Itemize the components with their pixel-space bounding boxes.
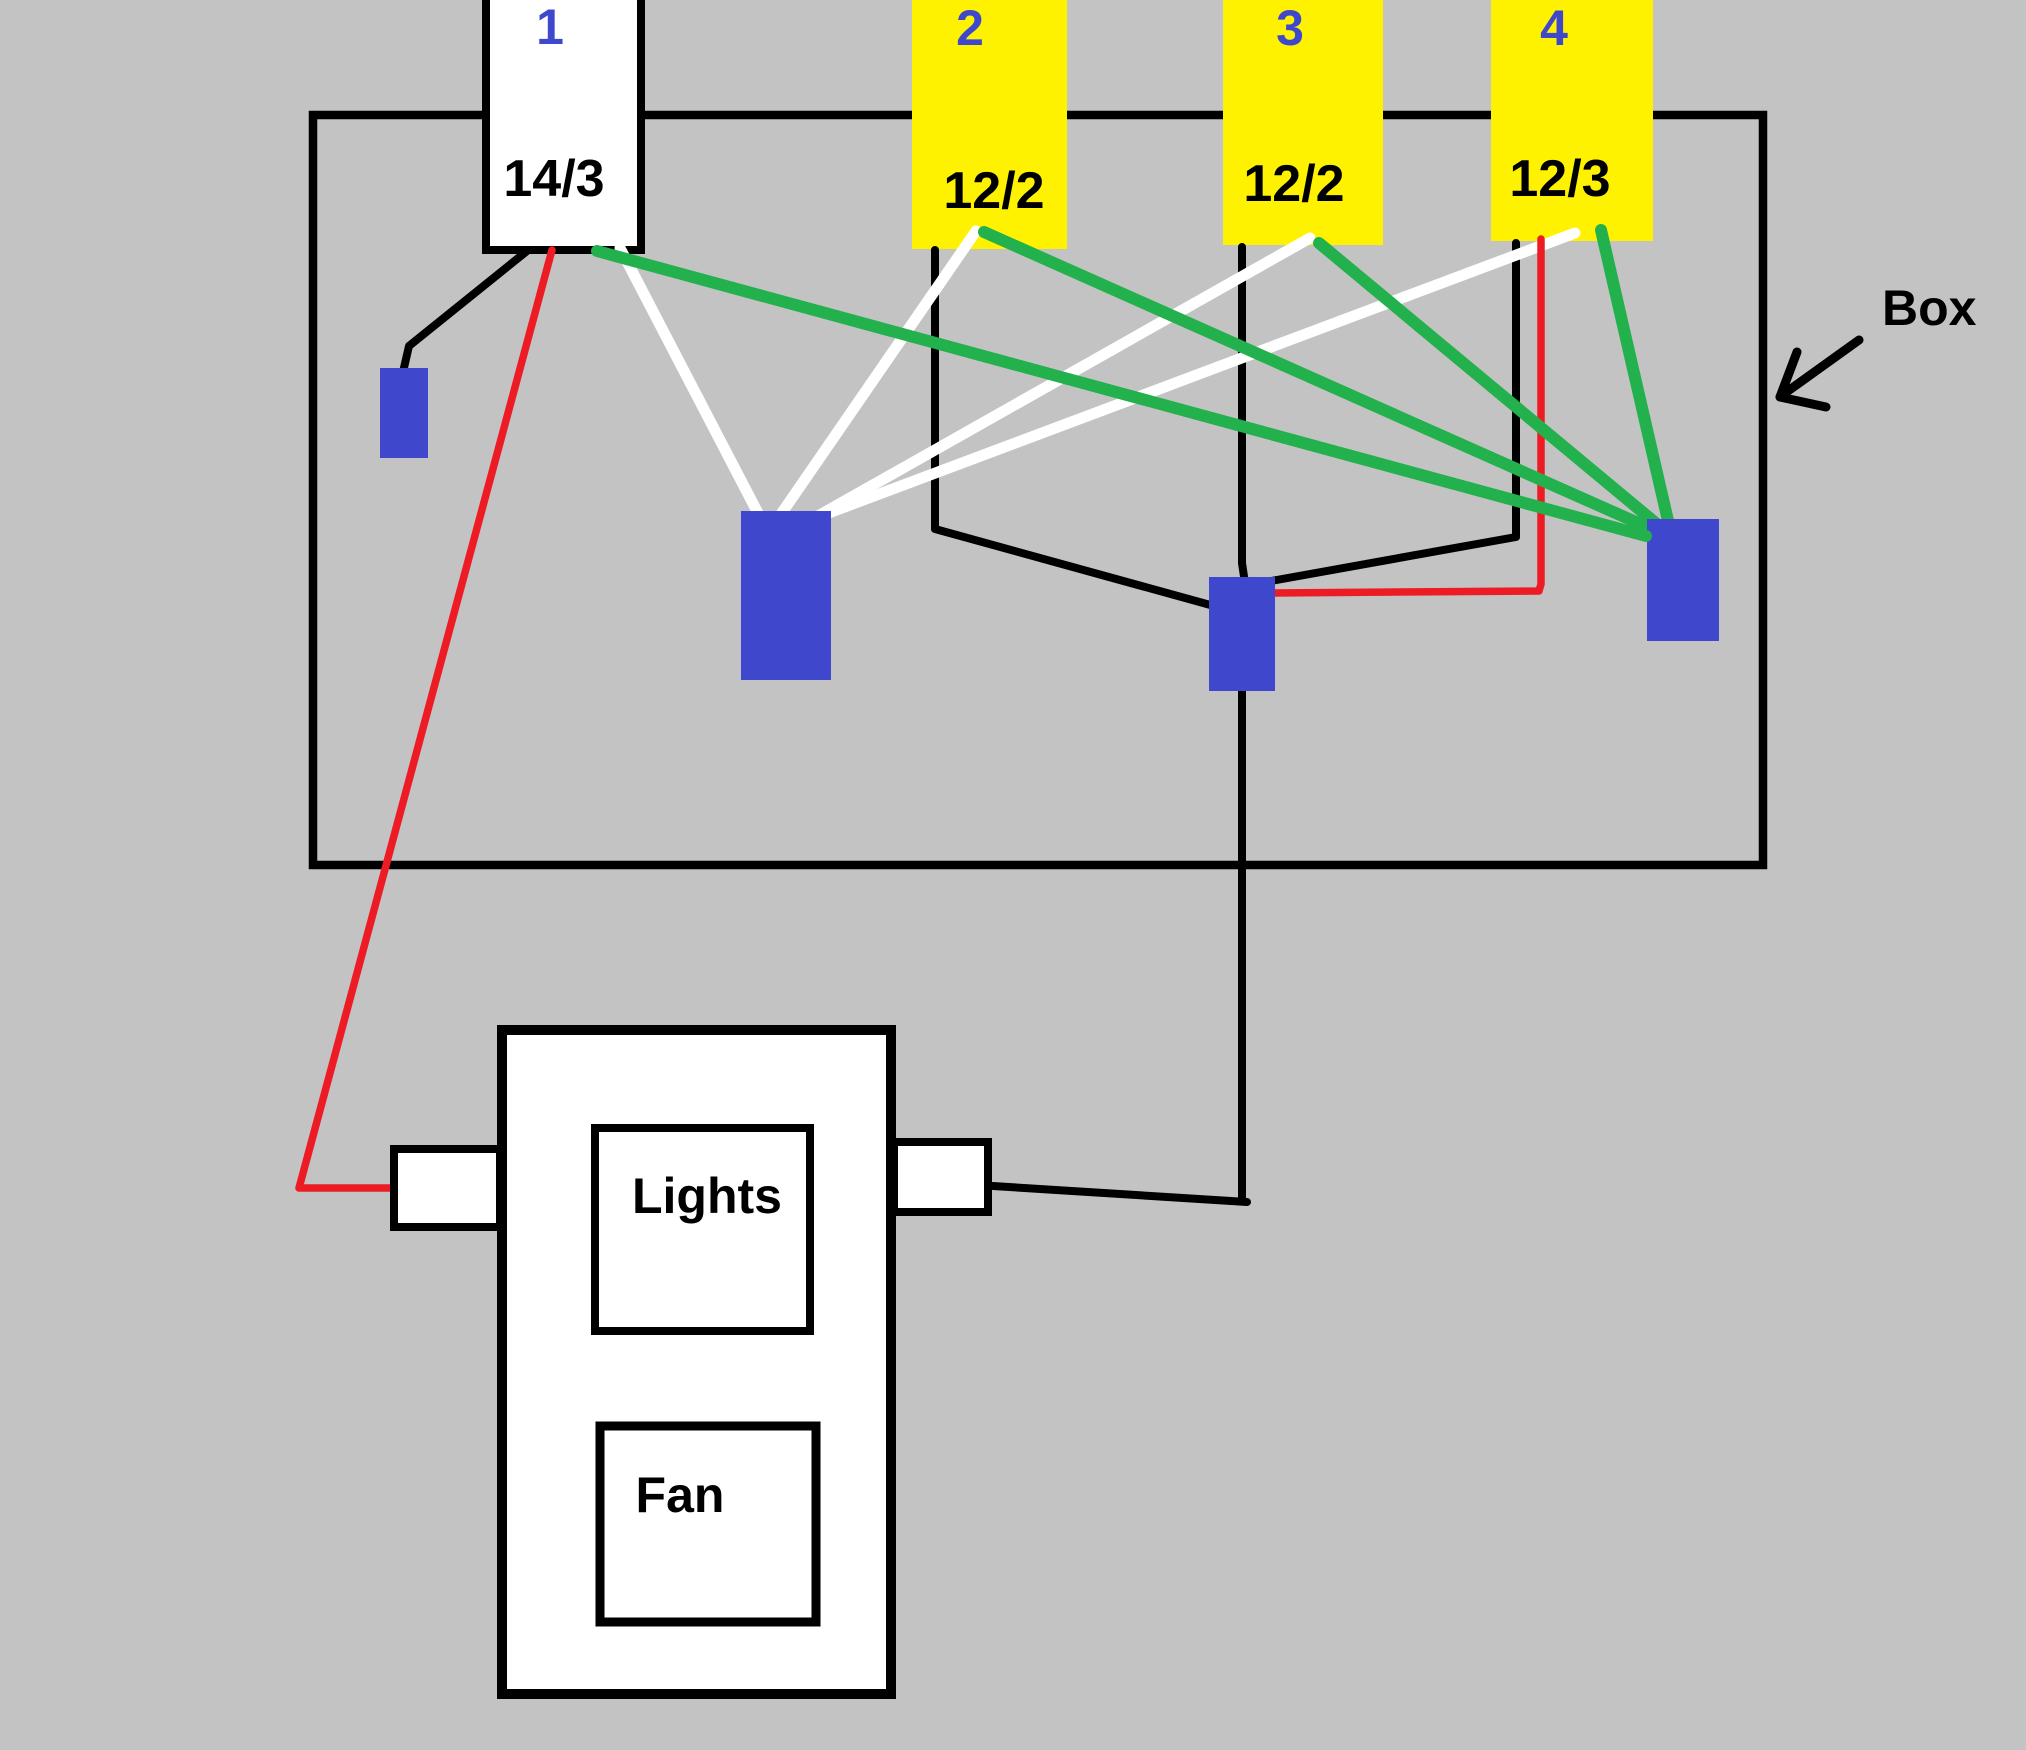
cable 4 sheath (yellow, 12/3) bbox=[1491, 0, 1653, 241]
black wire: B3 down out of box bbox=[1238, 685, 1246, 1201]
wire nut B1 (blue) bbox=[380, 368, 428, 458]
green wire: cable 2 to B4 bbox=[984, 232, 1656, 531]
black wire: cable 4 to B3 bbox=[1271, 243, 1516, 581]
white wire: cable 2 to B2 bbox=[779, 231, 976, 517]
white wire: cable 1 to B2 bbox=[620, 248, 760, 517]
svg-text:2: 2 bbox=[956, 0, 984, 56]
junction box outline bbox=[313, 115, 1763, 865]
red wire: cable 1 down to fixture left tab bbox=[299, 250, 552, 1188]
fixture body bbox=[502, 1030, 891, 1694]
svg-text:1: 1 bbox=[536, 0, 564, 55]
svg-text:Box: Box bbox=[1882, 280, 1977, 336]
wire nut B3 (blue, hots) bbox=[1209, 577, 1275, 691]
white wire: cable 4 to B2 bbox=[810, 233, 1575, 520]
black wire: fixture right tab to vertical bbox=[993, 1186, 1247, 1202]
svg-text:4: 4 bbox=[1540, 0, 1568, 56]
green wire: cable 1 to B4 bbox=[597, 251, 1646, 536]
fixture left tab bbox=[394, 1149, 500, 1227]
wire nut B2 (blue, neutrals) bbox=[741, 511, 831, 680]
arrow pointing to box edge: shaft bbox=[1781, 340, 1859, 396]
white wire: cable 3 to B2 bbox=[818, 238, 1310, 516]
svg-text:12/2: 12/2 bbox=[943, 162, 1044, 220]
cable 2 sheath (yellow, 12/2) bbox=[912, 0, 1067, 249]
cable 3 sheath (yellow, 12/2) bbox=[1223, 0, 1383, 245]
black wire: cable 3 to B3 bbox=[1242, 247, 1246, 590]
arrow barb upper bbox=[1780, 352, 1797, 397]
black wire: cable 1 to B1 bbox=[403, 251, 527, 372]
fixture right tab bbox=[894, 1142, 988, 1212]
svg-text:Fan: Fan bbox=[636, 1467, 725, 1523]
Lights box bbox=[595, 1128, 810, 1331]
svg-text:3: 3 bbox=[1276, 0, 1304, 56]
svg-text:12/3: 12/3 bbox=[1509, 150, 1610, 208]
wire nut B4 (blue, grounds) bbox=[1647, 519, 1719, 641]
green wire: cable 4 to B4 bbox=[1601, 230, 1669, 525]
green wire: cable 3 to B4 bbox=[1319, 243, 1658, 525]
svg-text:14/3: 14/3 bbox=[503, 150, 604, 208]
cable 1 sheath (white, 14/3) bbox=[486, 0, 641, 250]
Fan box bbox=[600, 1426, 816, 1622]
black wire: cable 2 to B3 bbox=[935, 250, 1214, 606]
svg-text:12/2: 12/2 bbox=[1243, 155, 1344, 213]
red wire: B3 to cable 4 bbox=[1271, 239, 1541, 593]
svg-text:Lights: Lights bbox=[632, 1168, 782, 1224]
arrow barb lower bbox=[1780, 397, 1826, 407]
